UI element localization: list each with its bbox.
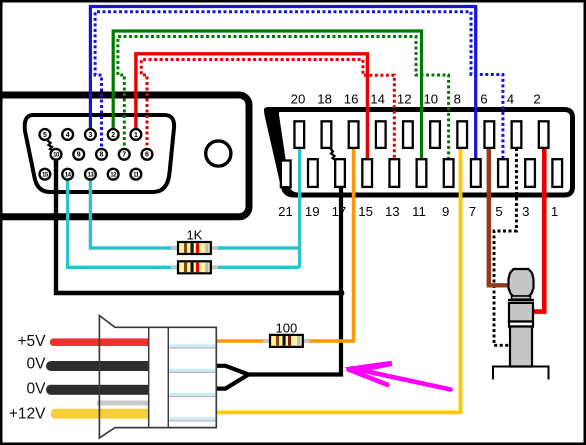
svg-text:0V: 0V bbox=[27, 381, 47, 398]
svg-text:2: 2 bbox=[111, 132, 115, 139]
svg-text:18: 18 bbox=[317, 92, 332, 107]
svg-text:0V: 0V bbox=[27, 356, 47, 373]
svg-text:8: 8 bbox=[454, 92, 461, 107]
svg-text:1K: 1K bbox=[186, 228, 202, 243]
svg-text:21: 21 bbox=[278, 204, 293, 219]
svg-text:12: 12 bbox=[397, 92, 412, 107]
svg-text:3: 3 bbox=[522, 204, 529, 219]
svg-text:6: 6 bbox=[145, 152, 149, 159]
svg-text:7: 7 bbox=[469, 204, 476, 219]
svg-text:100: 100 bbox=[276, 320, 298, 335]
svg-text:5: 5 bbox=[495, 204, 502, 219]
svg-text:4: 4 bbox=[66, 132, 70, 139]
svg-text:+12V: +12V bbox=[9, 405, 46, 422]
svg-text:3: 3 bbox=[88, 132, 92, 139]
svg-text:10: 10 bbox=[423, 92, 438, 107]
svg-text:13: 13 bbox=[385, 204, 400, 219]
svg-text:1: 1 bbox=[551, 204, 558, 219]
svg-text:19: 19 bbox=[305, 204, 320, 219]
svg-text:9: 9 bbox=[77, 152, 81, 159]
svg-text:6: 6 bbox=[480, 92, 487, 107]
svg-text:5: 5 bbox=[43, 132, 47, 139]
svg-text:+5V: +5V bbox=[17, 333, 46, 350]
svg-text:7: 7 bbox=[122, 152, 126, 159]
svg-text:20: 20 bbox=[291, 92, 306, 107]
svg-text:8: 8 bbox=[100, 152, 104, 159]
svg-text:1: 1 bbox=[134, 132, 138, 139]
svg-text:14: 14 bbox=[370, 92, 385, 107]
svg-text:9: 9 bbox=[442, 204, 449, 219]
svg-text:2: 2 bbox=[533, 92, 540, 107]
svg-text:11: 11 bbox=[412, 204, 426, 219]
svg-text:15: 15 bbox=[358, 204, 373, 219]
svg-text:4: 4 bbox=[507, 92, 514, 107]
svg-text:16: 16 bbox=[344, 92, 359, 107]
